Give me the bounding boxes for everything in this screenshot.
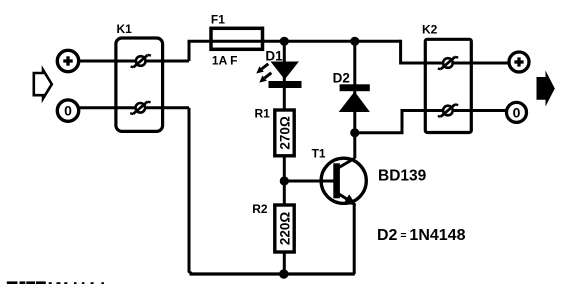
wire: T1 emitter vertical to bottom rail <box>353 203 356 274</box>
svg-text:0: 0 <box>513 104 521 120</box>
caption fragment (cut off at bottom edge) <box>7 281 104 284</box>
connector K2 <box>425 39 471 132</box>
svg-text:K1: K1 <box>117 22 133 36</box>
terminal 0: output zero terminal <box>507 102 527 122</box>
wire: T1 collector vertical to node B <box>353 133 356 159</box>
label R1 <box>255 107 271 121</box>
wire: input 0 terminal to K1 lower pin row <box>78 106 189 109</box>
wire: D2 branch vertical from top rail to node B <box>353 41 356 133</box>
svg-text:T1: T1 <box>312 147 326 161</box>
LED D1 <box>269 62 302 89</box>
label K1 <box>117 22 133 36</box>
label D1 <box>265 49 283 64</box>
LED D1 light arrows <box>256 64 271 83</box>
svg-text:D1: D1 <box>265 49 283 64</box>
label R2 <box>252 202 268 216</box>
svg-text:0: 0 <box>64 103 72 119</box>
svg-text:K2: K2 <box>422 23 438 37</box>
label D2 = 1N4148 <box>377 227 466 244</box>
K2 pin 2 (lower) <box>438 104 458 116</box>
wire: base wire from node A to T1 base <box>284 180 335 183</box>
svg-text:R2: R2 <box>252 202 268 216</box>
diode D2 <box>339 84 370 112</box>
wire: K1 lower row down long vertical to bottom rail <box>189 108 192 274</box>
wire: K1 upper row up-step to top rail <box>188 41 191 61</box>
K2 pin 1 (upper) <box>438 57 458 69</box>
output arrow <box>537 71 555 107</box>
svg-text:BD139: BD139 <box>378 168 427 185</box>
label D2 <box>333 71 350 86</box>
svg-text:F1: F1 <box>211 13 225 27</box>
label T1 <box>312 147 326 161</box>
resistor R1 <box>275 110 294 156</box>
terminal +: output plus terminal <box>509 52 529 72</box>
svg-text:D2 = 1N4148: D2 = 1N4148 <box>377 227 466 244</box>
svg-text:R1: R1 <box>255 107 271 121</box>
wire: top rail from step to K2 step-down <box>188 40 401 43</box>
value label 1A F <box>212 54 238 68</box>
K1 pin 1 (upper) <box>131 55 151 67</box>
svg-text:270Ω: 270Ω <box>277 116 292 150</box>
wire: bottom rail <box>190 272 355 275</box>
junction: top rail / D1 branch <box>280 37 289 46</box>
svg-text:D2: D2 <box>333 71 350 86</box>
input arrow <box>34 70 52 99</box>
resistor R2 <box>275 205 294 252</box>
svg-text:1A F: 1A F <box>212 54 238 68</box>
wire: R2 bottom to bottom rail <box>283 252 286 274</box>
node B junction: D2 / collector / K2 lower <box>350 128 359 137</box>
label K2 <box>422 23 438 37</box>
label F1 <box>211 13 225 27</box>
wire: node B step up into K2 lower pin <box>355 111 507 133</box>
node A junction: R1/R2/base <box>280 176 289 185</box>
K1 pin 2 (lower) <box>130 102 150 114</box>
wire: R1 bottom to node A and down to R2 <box>283 155 286 205</box>
fuse F1 <box>211 28 263 49</box>
transistor T1 <box>321 158 366 205</box>
junction: R2 bottom on bottom rail <box>279 269 288 278</box>
connector K1 <box>116 38 163 131</box>
svg-text:220Ω: 220Ω <box>277 212 292 246</box>
terminal +: input plus terminal <box>57 50 78 71</box>
wire: input + terminal to K1 upper pin row <box>78 60 189 63</box>
junction: top rail / D2 branch <box>350 37 359 46</box>
wire: step down into K2 upper pin <box>401 40 509 63</box>
terminal 0: input zero terminal <box>57 100 78 121</box>
wire: D1/R1 branch vertical from top rail <box>283 41 286 110</box>
label BD139 <box>378 168 427 185</box>
